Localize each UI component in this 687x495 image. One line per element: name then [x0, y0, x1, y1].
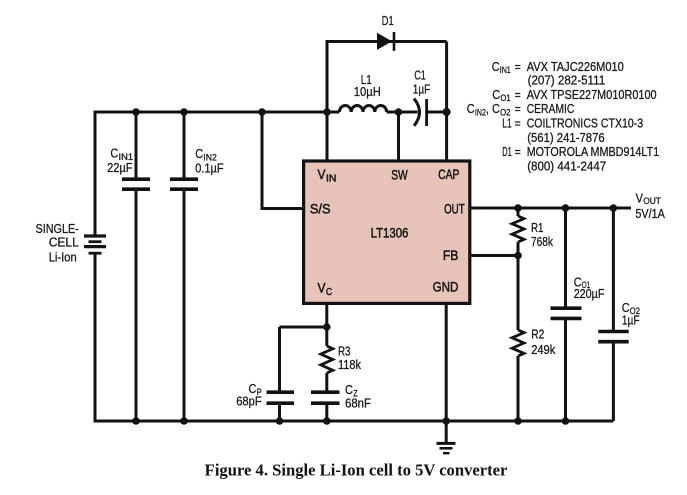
wire CIN2 upper lead [183, 112, 186, 179]
svg-text:=: = [515, 101, 521, 116]
node SW [395, 108, 403, 116]
svg-text:Li-Ion: Li-Ion [49, 249, 77, 264]
wire CAP vertical [445, 42, 448, 162]
svg-text:COILTRONICS CTX10-3: COILTRONICS CTX10-3 [527, 116, 643, 131]
wire FB [470, 254, 518, 257]
svg-text:OUT: OUT [444, 200, 465, 216]
node gnd CO1 [562, 417, 570, 425]
ground [437, 443, 456, 453]
svg-text:C: C [467, 101, 475, 116]
label R2 value [531, 327, 556, 357]
wire ground bus [95, 420, 613, 422]
label L1 value [354, 72, 381, 99]
label R3 value [338, 343, 361, 372]
wire R1 lower lead [517, 242, 520, 256]
wire top input bus [95, 112, 339, 236]
label CZ value [345, 382, 371, 410]
wire CO1 lower lead [564, 320, 567, 421]
pin SW [391, 166, 408, 182]
svg-text:(207) 282-5111: (207) 282-5111 [528, 72, 606, 87]
node CIN2 top [180, 108, 188, 116]
wire SW drop [397, 112, 400, 161]
svg-text:V: V [318, 280, 327, 296]
svg-text:CERAMIC: CERAMIC [527, 101, 575, 116]
svg-text:=: = [515, 59, 521, 74]
capacitor CZ [311, 392, 340, 403]
svg-text:C: C [326, 287, 332, 298]
svg-text:68pF: 68pF [236, 393, 262, 408]
svg-text:IN: IN [326, 174, 336, 185]
capacitor CIN1 [122, 179, 150, 189]
wire CZ lower lead [325, 405, 328, 421]
label C1 value [413, 68, 430, 97]
wire battery left vertical bottom [94, 253, 97, 421]
capacitor CIN2 [170, 179, 198, 189]
node OUT R1 [514, 204, 522, 212]
node VC junction [323, 323, 331, 331]
wire CIN1 upper lead [135, 112, 138, 179]
label battery SINGLE-CELL Li-Ion [36, 221, 79, 264]
node CAP [443, 108, 451, 116]
capacitor Cp [267, 392, 295, 403]
resistor R1 [512, 216, 524, 242]
capacitor CO1 [551, 308, 582, 318]
wire OUT bus [470, 207, 631, 210]
wire R2 upper lead [517, 256, 520, 331]
capacitor C1 [414, 99, 427, 127]
svg-text:220µF: 220µF [574, 286, 605, 301]
svg-text:V: V [636, 191, 644, 206]
svg-text:C: C [110, 146, 118, 161]
wire R3 to CZ [325, 373, 328, 391]
resistor R2 [512, 330, 524, 356]
svg-text:AVX TPSE227M010R0100: AVX TPSE227M010R0100 [527, 87, 657, 102]
svg-text:22µF: 22µF [107, 160, 133, 175]
svg-text:1µF: 1µF [413, 81, 430, 96]
wire CIN1 lower lead [135, 189, 138, 421]
pin CAP [438, 166, 459, 182]
wire CO1 upper lead [564, 208, 567, 307]
svg-text:L1: L1 [502, 116, 511, 131]
pin S/S [310, 201, 331, 217]
node OUT CO1 [562, 204, 570, 212]
wire R2 lower lead [517, 356, 520, 421]
svg-text:68nF: 68nF [345, 395, 371, 410]
wire Cp lower lead [278, 405, 281, 421]
svg-text:CAP: CAP [438, 166, 459, 182]
svg-text:V: V [318, 166, 327, 182]
wire Cp horizontal branch [280, 326, 327, 329]
label CIN1 value [107, 146, 133, 175]
svg-text:SW: SW [391, 166, 408, 182]
svg-text:1µF: 1µF [622, 313, 640, 328]
svg-text:(561) 241-7876: (561) 241-7876 [527, 130, 605, 145]
node gnd R2 [514, 417, 522, 425]
svg-text:5V/1A: 5V/1A [635, 206, 665, 221]
svg-text:R2: R2 [531, 327, 544, 342]
svg-text:118k: 118k [338, 357, 361, 372]
wire VIN drop [326, 112, 329, 161]
svg-text:C: C [492, 59, 500, 74]
svg-text:249k: 249k [531, 342, 556, 357]
svg-text:FB: FB [443, 247, 459, 263]
svg-text:10µH: 10µH [354, 84, 381, 99]
svg-text:768k: 768k [531, 234, 553, 249]
label CO1 value [574, 275, 605, 301]
svg-text:(800) 441-2447: (800) 441-2447 [527, 159, 606, 174]
battery single cell [84, 236, 106, 253]
wire VC drop [325, 302, 328, 346]
caption Figure 4 [205, 461, 508, 480]
pin VC [318, 280, 333, 298]
svg-text:C: C [492, 87, 500, 102]
svg-text:GND: GND [433, 279, 459, 295]
pin OUT [444, 200, 465, 216]
capacitor CO2 [598, 332, 629, 342]
svg-text:C: C [195, 146, 203, 161]
wire R1 upper lead [517, 208, 520, 216]
pin FB [443, 247, 459, 263]
node OUT CO2 [610, 204, 618, 212]
node gnd Cp [276, 417, 284, 425]
svg-text:Figure 4. Single Li-Ion cell t: Figure 4. Single Li-Ion cell to 5V conve… [205, 461, 508, 480]
wire D1 branch up and across [327, 42, 447, 113]
node gnd CIN1 [132, 417, 140, 425]
svg-text:LT1306: LT1306 [371, 225, 409, 241]
svg-text:CELL: CELL [49, 235, 79, 250]
svg-text:O1: O1 [500, 93, 510, 104]
pin VIN [318, 166, 337, 184]
node gnd CZ [323, 417, 331, 425]
label U1 LT1306 [371, 225, 409, 241]
pin GND [433, 279, 459, 295]
label R1 value [531, 220, 553, 249]
IC U1 LT1306 body [304, 161, 470, 303]
svg-text:D1: D1 [382, 13, 394, 28]
node FB [514, 252, 522, 260]
wire Cp vertical upper [278, 327, 281, 391]
svg-text:=: = [515, 144, 521, 159]
node gnd CIN2 [180, 417, 188, 425]
svg-text:IN2: IN2 [475, 107, 486, 118]
svg-text:=: = [515, 87, 521, 102]
svg-text:S/S: S/S [310, 201, 331, 217]
node gnd GND pin [442, 417, 450, 425]
label Cp value [236, 381, 262, 409]
wire GND pin drop [445, 302, 448, 421]
node S/S branch [258, 108, 266, 116]
svg-text:0.1µF: 0.1µF [195, 160, 223, 175]
node VOUT label [635, 191, 665, 221]
wire L1 right lead [387, 111, 418, 114]
svg-text:, C: , C [486, 101, 500, 116]
svg-text:D1: D1 [502, 144, 512, 159]
node CIN1 top [132, 108, 140, 116]
inductor L1 [339, 106, 386, 112]
label D1 [382, 13, 394, 28]
label CO2 value [622, 300, 640, 328]
svg-text:=: = [515, 116, 521, 131]
wire CIN2 lower lead [183, 189, 186, 421]
node VIN [323, 108, 331, 116]
wire S/S branch [262, 112, 305, 209]
note parts list [467, 59, 659, 174]
resistor R3 [321, 346, 333, 373]
wire ground stub [445, 421, 448, 442]
label CIN2 value [195, 146, 223, 175]
svg-text:IN1: IN1 [500, 65, 511, 76]
wire C1 right lead [427, 111, 447, 114]
svg-text:MOTOROLA MMBD914LT1: MOTOROLA MMBD914LT1 [527, 144, 660, 159]
wire CO2 upper lead [612, 208, 615, 330]
diode D1 [377, 32, 394, 51]
wire CO2 lower lead [612, 343, 615, 421]
svg-text:R1: R1 [531, 220, 543, 235]
